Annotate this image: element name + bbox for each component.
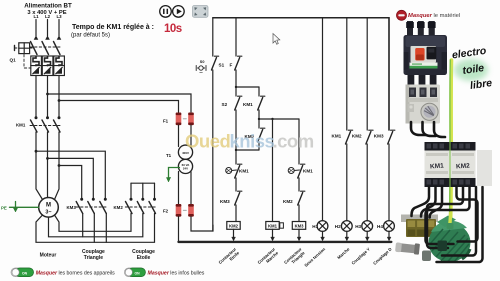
mouse cursor — [273, 34, 280, 45]
lamp H1 — [317, 221, 328, 232]
svg-text:KM1: KM1 — [332, 134, 342, 139]
photo motor body — [422, 216, 471, 263]
svg-text:KM1: KM1 — [268, 224, 278, 229]
svg-text:libre: libre — [469, 77, 493, 92]
node delta tap 1 — [35, 150, 38, 153]
coil KM3 box — [292, 222, 305, 230]
wire KM3 NC to KM2 coil — [235, 205, 237, 222]
contactor KM3 pole 2 — [88, 198, 95, 214]
coil KM1 box with timer block — [266, 222, 284, 230]
motor M circle — [39, 198, 59, 218]
photo breaker green label — [410, 63, 438, 69]
svg-text:KM1: KM1 — [239, 169, 249, 174]
photo breaker bottom pillars — [408, 75, 437, 90]
svg-text:F2: F2 — [163, 208, 169, 213]
wire F2 right to control column — [191, 217, 213, 231]
photo breaker top terminals — [406, 21, 435, 37]
svg-text:H3: H3 — [355, 224, 361, 229]
svg-text:ON: ON — [134, 271, 140, 275]
label Couplage Etoile — [132, 249, 155, 261]
wire Q1 pole1 to KM1 — [35, 76, 37, 118]
photo cables relay to contactors — [411, 122, 445, 137]
svg-text:Triangle: Triangle — [84, 255, 103, 261]
wire delta link phase1 to KM3 pole3 — [36, 151, 105, 198]
contactor KM1 pole 3 — [54, 116, 61, 132]
text electro toile libre — [451, 45, 493, 92]
wire node R to KM1 coil — [272, 119, 274, 222]
svg-text:.com: .com — [273, 131, 314, 152]
lamp H4 — [384, 221, 395, 232]
wire KM3 pole3 down — [105, 214, 107, 243]
wire lamp H3 column lower — [366, 144, 368, 221]
svg-text:S0: S0 — [200, 60, 205, 64]
svg-text:Couplage D: Couplage D — [372, 247, 393, 266]
wire node R branch to delta column — [298, 119, 300, 164]
auxiliary contact KM2 NC (delta branch) — [298, 191, 305, 205]
wire lamp H4 column lower — [388, 144, 390, 221]
pushbutton S2 contact — [235, 96, 242, 110]
icon Masquer le materiel button — [397, 10, 407, 20]
wire KM3 pole2 down — [93, 214, 95, 243]
label Contacteur Etoile rotated — [217, 246, 240, 265]
node delta tap 3 — [58, 164, 61, 167]
svg-text:KM2: KM2 — [283, 199, 293, 204]
svg-text:3~: 3~ — [45, 210, 51, 216]
svg-text:10s: 10s — [164, 23, 182, 35]
wire timer to KM3 NC — [235, 178, 237, 191]
svg-text:Moteur: Moteur — [40, 253, 57, 259]
photo thermal relay body — [406, 85, 441, 124]
label transformer 63VA 24V — [182, 163, 191, 171]
wire L2 supply drop — [46, 20, 50, 40]
pushbutton S1 contact — [212, 56, 219, 70]
photo contactor KM2 — [451, 142, 476, 187]
svg-text:S1: S1 — [219, 63, 225, 68]
transformer earth arrow — [166, 168, 179, 183]
wire F1 to transformer — [179, 125, 192, 146]
svg-text:F1: F1 — [163, 118, 169, 123]
control top rail — [213, 18, 389, 130]
svg-text:L2: L2 — [45, 14, 51, 19]
wire motor W2 to KM3/KM2 row 3 — [36, 214, 155, 243]
svg-text:KM1: KM1 — [430, 163, 445, 171]
auxiliary contact KM3 NC interlock — [235, 191, 242, 205]
contactor KM1 link dashes — [30, 125, 62, 127]
node P branch bar — [235, 86, 259, 88]
photo motor circuit breaker body — [404, 35, 448, 75]
wire KM1 pole3 to motor W1 — [55, 132, 60, 200]
auxiliary contact KM1 hold — [258, 87, 265, 128]
svg-text:KM3: KM3 — [67, 205, 77, 210]
photo terminal strip — [406, 219, 436, 237]
photo contactor KM1 — [425, 142, 450, 187]
wire delta link phase2 to KM3 pole2 — [48, 158, 94, 198]
photo earth wire green-yellow — [449, 60, 451, 228]
thermal relay F1 NC contact — [235, 56, 242, 70]
breaker Q1 pole 1 contact — [31, 42, 38, 55]
contactor KM2 link dashes — [125, 206, 155, 208]
wire delta link phase3 to KM3 pole1 — [59, 166, 82, 199]
wire KM2 coil to rail — [232, 229, 236, 240]
auxiliary contact KM2 NO (lamp H3) — [366, 130, 373, 144]
toggle Masquer les infos bulles — [124, 268, 145, 277]
breaker Q1 manual operator symbol — [15, 43, 30, 54]
svg-text:Masquer les bornes des apparei: Masquer les bornes des appareils — [36, 271, 115, 277]
photo DIN rail under terminals — [401, 215, 438, 223]
timer contact KM1 NO timed (delta branch) — [288, 164, 305, 178]
contactor KM2 pole 3 — [149, 183, 156, 213]
svg-text:M: M — [46, 202, 51, 208]
wire lamp H4 column upper — [388, 18, 390, 130]
svg-text:KM1: KM1 — [243, 102, 253, 107]
icon fullscreen — [193, 6, 209, 18]
svg-text:T1: T1 — [166, 153, 172, 158]
wire S2 to node Q — [235, 110, 237, 164]
contactor KM3 link dashes — [76, 206, 106, 208]
watermark Ouedkniss.com — [185, 131, 314, 152]
wire lamp H3 column upper — [366, 18, 368, 130]
lamp H3 — [362, 221, 373, 232]
contactor KM2 star bar — [131, 182, 155, 184]
auxiliary contact KM1 NO (lamp H2) — [346, 130, 353, 144]
svg-text:L1: L1 — [33, 14, 39, 19]
wire F2 left to bottom rail — [178, 217, 180, 241]
coil KM2 box — [227, 222, 240, 230]
wire S1 column upper — [212, 18, 214, 56]
wire lamp H2 column upper — [346, 18, 348, 130]
breaker Q1 pole 1 thermal-magnetic box — [31, 56, 42, 76]
svg-text:KM3: KM3 — [374, 134, 384, 139]
svg-text:electro: electro — [451, 45, 487, 62]
svg-text:Alimentation BT: Alimentation BT — [24, 3, 72, 10]
wire lamp H3 to rail — [365, 231, 369, 240]
node R branch bar — [258, 118, 299, 120]
wire KM3 coil to rail — [297, 229, 301, 240]
wire tap phase3 to transformer primary — [58, 99, 179, 112]
wire transformer secondary to F2 — [179, 172, 192, 205]
wire tap phase2 to transformer primary — [46, 93, 191, 112]
wire L1 supply drop — [34, 20, 38, 40]
photo breaker front plate — [411, 46, 437, 63]
svg-text:Couplage Y: Couplage Y — [350, 246, 371, 265]
breaker Q1 pole 2 contact — [42, 42, 49, 55]
photo motor terminal box dark — [438, 241, 448, 252]
label Couplage Triangle — [82, 249, 105, 261]
photo breaker black switch — [427, 47, 437, 60]
control bottom rail — [179, 241, 392, 243]
wire motor V2 to KM3/KM2 row 2 — [49, 214, 143, 237]
photo motor shaft — [395, 241, 420, 254]
contactor KM1 pole 1 — [31, 116, 38, 132]
wire lamp H2 to rail — [345, 231, 349, 240]
photo wall shadow right — [477, 150, 492, 186]
contactor KM2 pole 1 — [126, 183, 133, 213]
svg-text:Sous tension: Sous tension — [303, 246, 326, 268]
icon pause button — [160, 6, 172, 18]
wire motor U2 to KM3/KM2 row 1 — [55, 214, 132, 232]
auxiliary contact KM2 NC interlock — [258, 128, 265, 150]
svg-text:KM2: KM2 — [114, 205, 124, 210]
fuse F2 right cartridge — [183, 204, 194, 217]
svg-text:H1: H1 — [312, 224, 318, 229]
timer contact KM1 NC timed (star branch) — [226, 164, 242, 178]
contactor KM3 pole 3 — [100, 198, 107, 214]
label Alimentation BT header — [24, 3, 72, 17]
fuse F2 left cartridge — [176, 204, 182, 217]
node Q rejoin bar — [235, 149, 259, 151]
contactor KM3 pole 1 — [76, 198, 83, 214]
lamp H2 — [341, 221, 352, 232]
wire lamp H4 to rail — [387, 231, 391, 240]
transformer T1 primary circle — [178, 145, 192, 159]
svg-text:KM2: KM2 — [352, 134, 362, 139]
photo earth wire into motor — [447, 212, 454, 229]
wire Q1 pole3 to KM1 — [58, 76, 60, 118]
wire L3 supply drop — [57, 20, 61, 40]
svg-text:KM2: KM2 — [229, 224, 239, 229]
fuse F1 right cartridge — [183, 113, 194, 126]
svg-text:S2: S2 — [222, 102, 228, 107]
wire lamp H2 column lower — [346, 144, 348, 221]
wire S1 column lower — [212, 70, 214, 231]
breaker Q1 pole 3 thermal-magnetic box — [54, 56, 65, 76]
wire Q1 pole2 to KM1 — [47, 76, 49, 118]
wire F1-contact column upper — [235, 18, 237, 56]
node delta tap 2 — [46, 157, 49, 160]
svg-text:KM1: KM1 — [303, 169, 313, 174]
svg-text:KM3: KM3 — [220, 199, 230, 204]
photo cables KM1 to terminal strip — [412, 187, 443, 218]
fuse F1 left cartridge — [176, 113, 182, 126]
svg-text:kniss: kniss — [230, 131, 275, 152]
svg-text:L3: L3 — [56, 14, 62, 19]
svg-text:H4: H4 — [377, 224, 383, 229]
svg-text:Q1: Q1 — [10, 58, 17, 63]
svg-text:Marche: Marche — [336, 246, 351, 260]
svg-text:Masquer les infos bulles: Masquer les infos bulles — [148, 271, 205, 277]
wire KM1 pole1 to motor U1 — [36, 132, 43, 200]
photo cables KM2 nested loops to motor — [426, 187, 483, 262]
svg-text:Oued: Oued — [185, 131, 230, 152]
svg-text:Masquer le matériel: Masquer le matériel — [408, 13, 460, 19]
label Contacteur Marche rotated — [256, 246, 279, 265]
svg-text:PE: PE — [1, 205, 7, 210]
contactor KM2 pole 2 — [137, 183, 144, 213]
breaker Q1 pole 2 thermal-magnetic box — [42, 56, 53, 76]
auxiliary contact KM3 NO (lamp H4) — [388, 130, 395, 144]
svg-text:KM1: KM1 — [16, 123, 26, 128]
wire KM1 coil to rail — [271, 229, 275, 240]
svg-text:ON: ON — [22, 271, 28, 275]
label motor M — [45, 202, 51, 215]
transformer T1 secondary circle — [178, 159, 192, 173]
pushbutton S0 head icon — [196, 66, 206, 73]
breaker Q1 mechanical link dashes — [15, 47, 63, 68]
svg-text:(par défaut 5s): (par défaut 5s) — [71, 32, 110, 38]
svg-text:F: F — [230, 63, 233, 68]
PE earth wire to motor — [10, 202, 39, 213]
svg-text:Tempo de KM1 réglée à :: Tempo de KM1 réglée à : — [72, 24, 154, 31]
wire to node P — [235, 70, 237, 96]
svg-text:KM2: KM2 — [456, 163, 471, 171]
contactor KM1 pole 2 — [42, 116, 49, 132]
svg-text:H2: H2 — [335, 224, 341, 229]
wire KM3 pole1 down — [82, 214, 84, 237]
breaker Q1 pole 3 contact — [54, 42, 61, 55]
wire KM2 NC to KM3 coil — [298, 205, 300, 222]
wire KM1 pole2 to motor V1 — [47, 132, 49, 198]
wire lamp H1 to rail — [321, 231, 325, 240]
label Contacteur Triangle rotated — [283, 246, 306, 265]
toggle Masquer les bornes — [11, 268, 34, 277]
icon play button — [173, 6, 185, 18]
svg-text:24V: 24V — [183, 166, 188, 170]
photo relay dial — [421, 103, 438, 120]
svg-text:KM3: KM3 — [295, 224, 305, 229]
wire lamp H1 column — [322, 18, 324, 221]
svg-text:Etoile: Etoile — [137, 255, 151, 261]
photo breaker red rocker — [415, 48, 424, 61]
wire timer to KM2 NC — [298, 178, 300, 191]
